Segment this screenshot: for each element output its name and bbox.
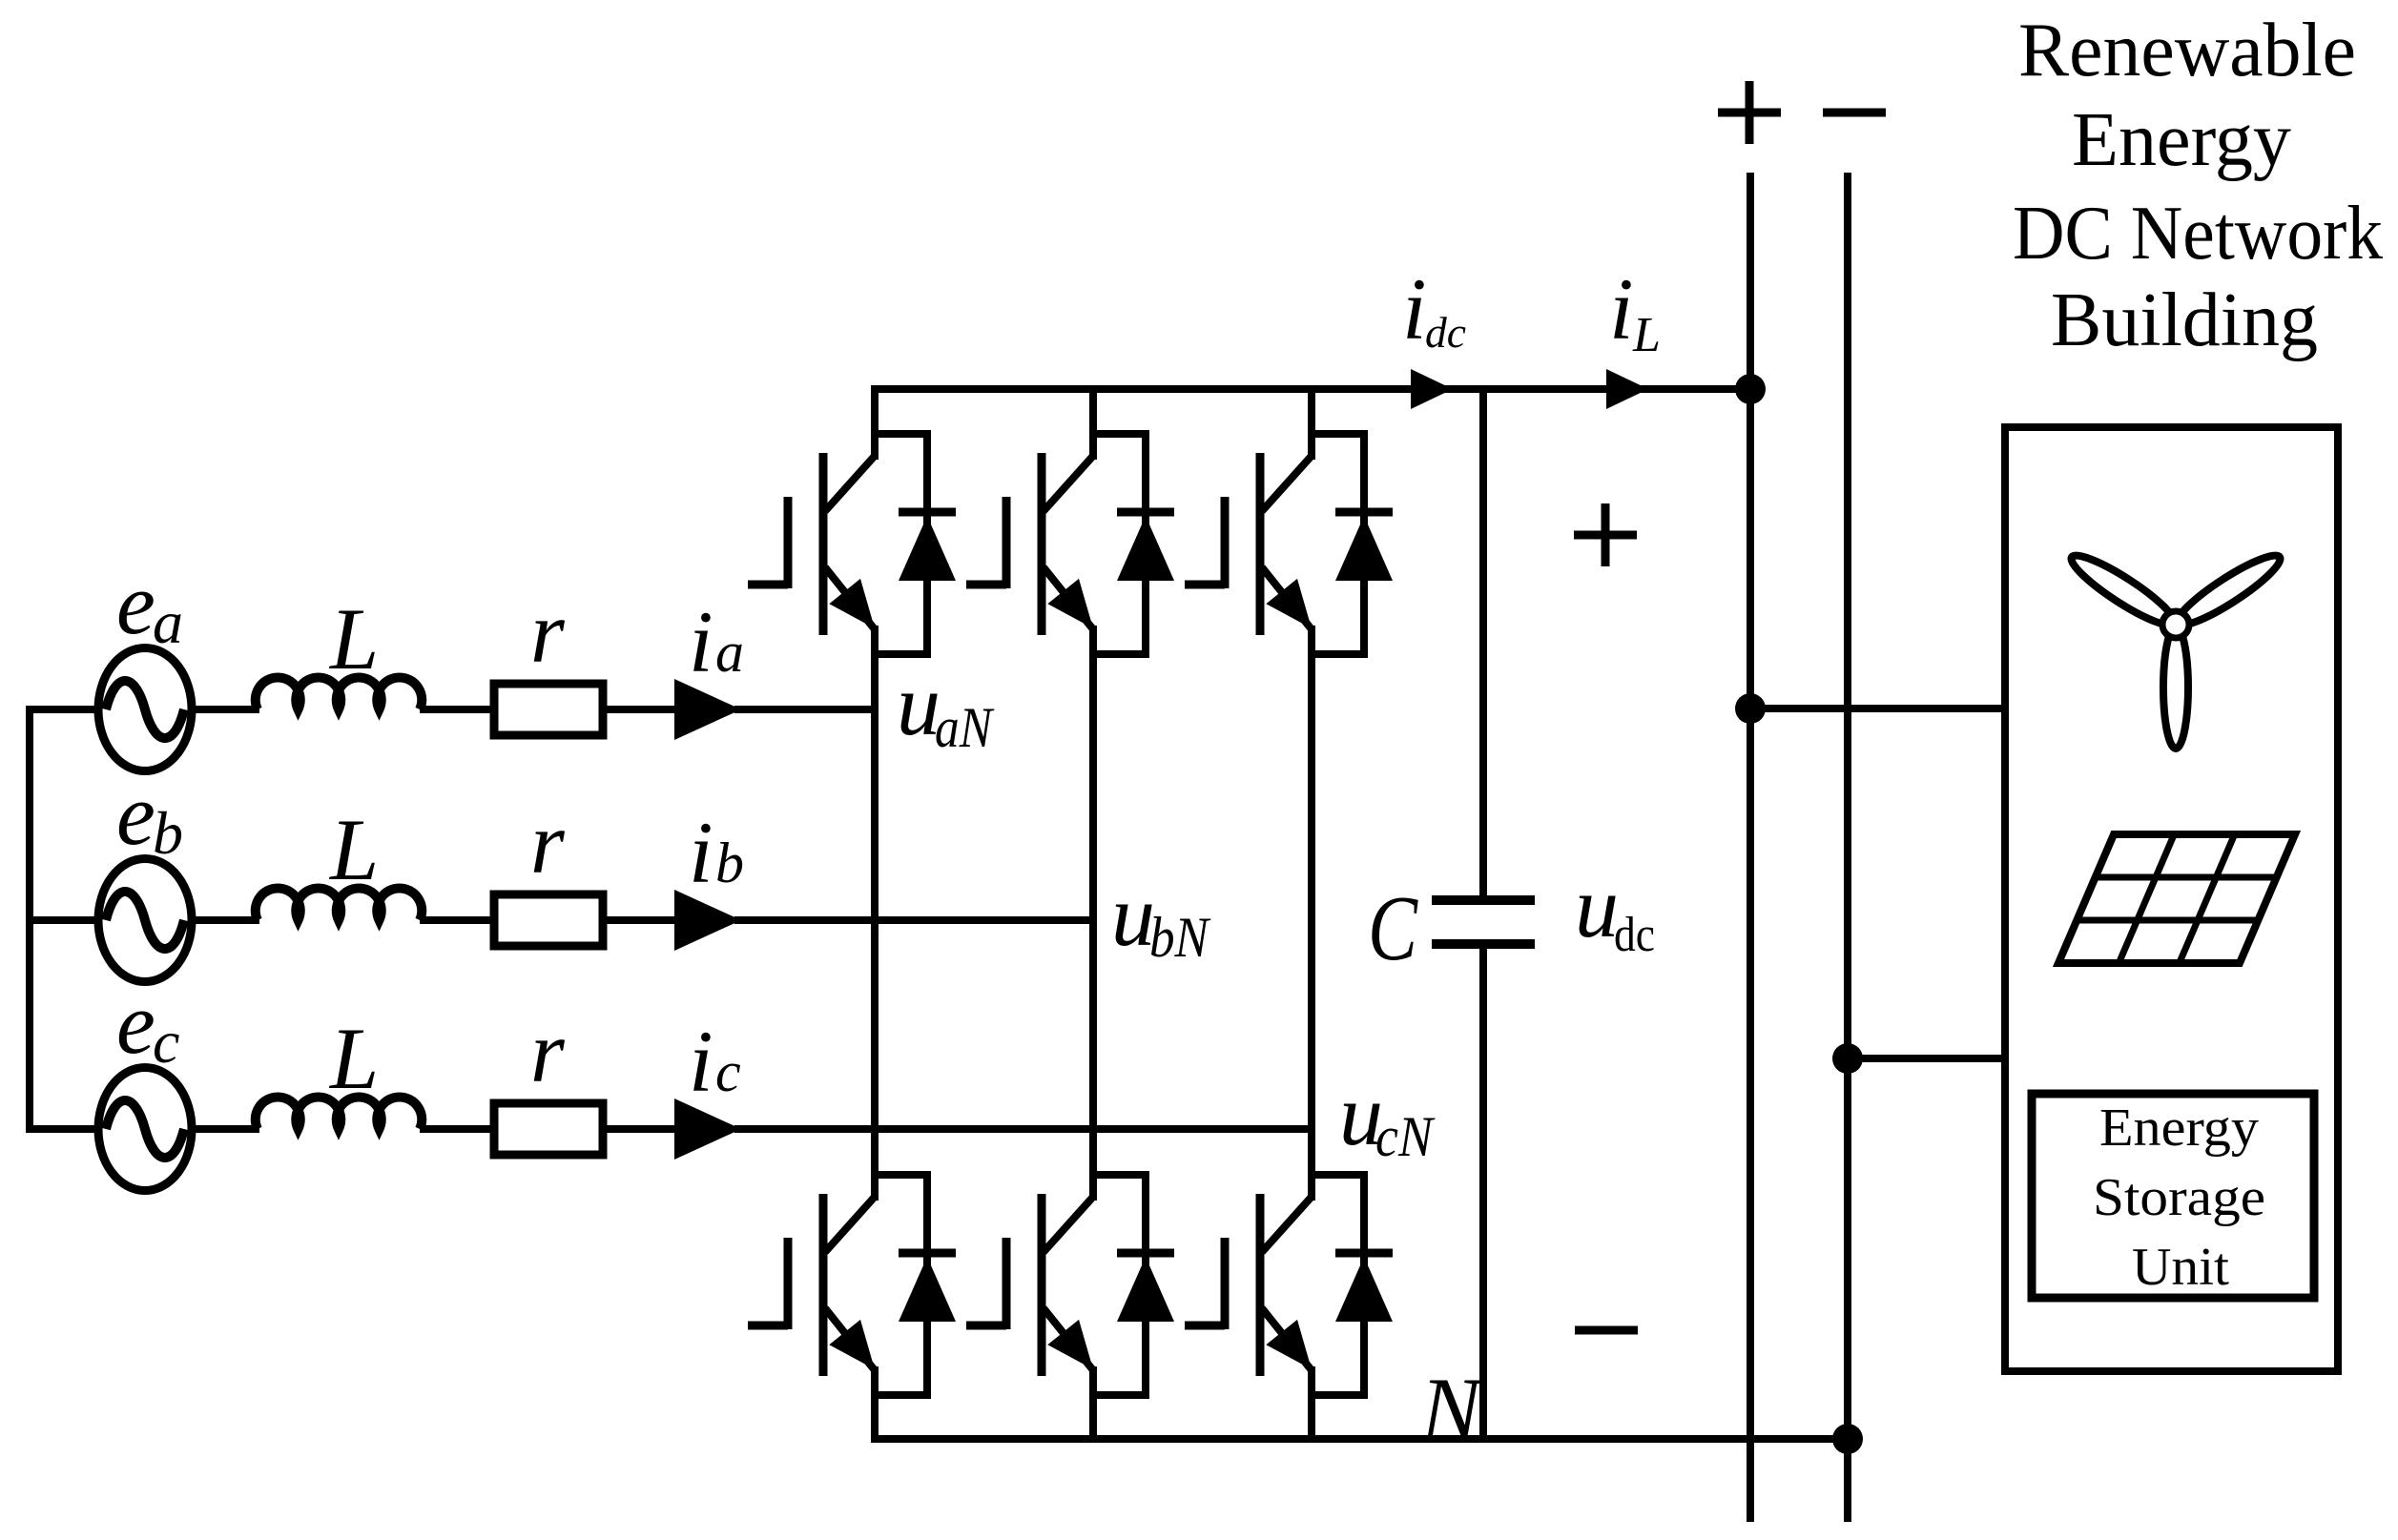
wire emitter-diode bottom jog Q5	[1093, 1391, 1146, 1399]
svg-text:Energy: Energy	[2072, 98, 2291, 182]
transistor Q1 (IGBT)	[748, 453, 875, 635]
transistor Q6 (IGBT)	[1185, 1194, 1312, 1376]
svg-text:dc: dc	[1614, 908, 1655, 962]
wire dc positive rail	[871, 385, 1750, 393]
diode D3 (anti-parallel)	[1335, 430, 1393, 658]
label i_a	[689, 593, 744, 690]
wire emitter-diode bottom jog Q2	[1093, 650, 1146, 658]
wire bridge leg 3 lower vertical	[1308, 1366, 1315, 1443]
wire capacitor branch lower	[1479, 944, 1487, 1439]
arrow current i_c	[674, 1099, 741, 1160]
wire left neutral bus vertical	[26, 706, 33, 1133]
label i_dc	[1402, 260, 1466, 358]
label e_c	[116, 975, 179, 1076]
label e_a	[116, 555, 183, 656]
arrow current i_a	[674, 679, 741, 740]
diode D1 (anti-parallel)	[899, 430, 956, 658]
label r phase b	[530, 794, 566, 892]
wire resistor to arrow phase b	[603, 916, 679, 924]
energy storage unit box	[2032, 1094, 2314, 1298]
svg-text:u: u	[1575, 858, 1619, 955]
label C	[1368, 877, 1418, 980]
transistor Q2 (IGBT)	[966, 453, 1093, 635]
label minus (bus)	[1823, 109, 1886, 117]
solar panel icon	[2058, 834, 2295, 963]
wire bridge leg 3 upper vertical	[1308, 385, 1315, 460]
label L phase b	[328, 801, 379, 898]
wire source to inductor phase c	[191, 1125, 259, 1133]
wire dc bus positive	[1747, 173, 1754, 1522]
wire source to inductor phase a	[191, 706, 259, 713]
svg-text:b: b	[715, 832, 744, 894]
capacitor C	[1432, 900, 1535, 944]
wire collector-diode top jog Q1	[875, 430, 927, 438]
wire bridge leg 2 middle vertical	[1089, 626, 1097, 1201]
voltage source e_a (AC)	[98, 648, 192, 771]
building box	[2005, 427, 2338, 1371]
label e_b	[116, 766, 183, 867]
wire collector-diode top jog Q2	[1093, 430, 1146, 438]
diode D5 (anti-parallel)	[1117, 1171, 1174, 1399]
wire collector-diode top jog Q4	[875, 1171, 927, 1179]
svg-text:r: r	[530, 1003, 566, 1100]
svg-text:e: e	[116, 975, 155, 1072]
wire collector-diode top jog Q6	[1312, 1171, 1364, 1179]
wire emitter-diode bottom jog Q1	[875, 650, 927, 658]
label L phase c	[328, 1010, 379, 1107]
wire arrow to bridge phase b	[734, 916, 1093, 924]
junction positive bus to building	[1735, 693, 1766, 724]
svg-text:i: i	[689, 593, 713, 690]
diode D2 (anti-parallel)	[1117, 430, 1174, 658]
svg-text:r: r	[530, 794, 566, 892]
label minus (dc link)	[1575, 1326, 1638, 1335]
svg-text:C: C	[1368, 877, 1418, 980]
diode D4 (anti-parallel)	[899, 1171, 956, 1399]
resistor r phase c	[494, 1103, 603, 1155]
arrow current i_L	[1606, 369, 1648, 409]
label Energy Storage Unit	[2093, 1099, 2265, 1297]
svg-text:i: i	[689, 1013, 713, 1110]
junction negative bus to storage	[1832, 1043, 1863, 1074]
svg-text:Unit: Unit	[2132, 1238, 2229, 1297]
wire source to inductor phase b	[191, 916, 259, 924]
wire positive bus to building	[1750, 705, 2005, 712]
svg-text:i: i	[689, 804, 713, 901]
svg-text:Building: Building	[2051, 278, 2318, 362]
arrow current i_dc	[1411, 369, 1453, 409]
label i_b	[689, 804, 744, 901]
node N	[1419, 1359, 1485, 1460]
wind turbine icon	[2065, 546, 2286, 749]
svg-text:DC Network: DC Network	[2013, 192, 2383, 276]
label plus (bus)	[1718, 81, 1781, 144]
svg-text:L: L	[328, 1010, 379, 1107]
transistor Q5 (IGBT)	[966, 1194, 1093, 1376]
wire bridge leg 1 upper vertical	[871, 385, 879, 460]
wire resistor to arrow phase a	[603, 706, 679, 713]
label i_L	[1609, 260, 1661, 362]
wire dc bus negative	[1844, 173, 1851, 1522]
wire inductor to resistor phase c	[420, 1125, 496, 1133]
label plus (dc link)	[1574, 503, 1637, 566]
svg-text:i: i	[1402, 260, 1427, 358]
svg-text:N: N	[1419, 1359, 1485, 1460]
wire bridge leg 1 middle vertical	[871, 626, 879, 1201]
wire source stub phase b	[26, 916, 99, 924]
voltage source e_b (AC)	[98, 859, 192, 982]
svg-text:bN: bN	[1149, 906, 1211, 969]
wire source stub phase c	[26, 1125, 99, 1133]
voltage source e_c (AC)	[98, 1068, 192, 1191]
resistor r phase b	[494, 894, 603, 946]
node u_bN	[1111, 867, 1211, 969]
arrow current i_b	[674, 890, 741, 951]
svg-text:L: L	[328, 801, 379, 898]
wire bridge leg 2 upper vertical	[1089, 385, 1097, 460]
wire negative bus to storage	[1848, 1055, 2005, 1062]
svg-text:e: e	[116, 555, 155, 652]
node u_aN	[897, 656, 995, 759]
wire resistor to arrow phase c	[603, 1125, 679, 1133]
wire emitter-diode bottom jog Q6	[1312, 1391, 1364, 1399]
svg-text:cN: cN	[1375, 1105, 1436, 1168]
wire emitter-diode bottom jog Q3	[1312, 650, 1364, 658]
svg-text:aN: aN	[935, 696, 995, 759]
diode D6 (anti-parallel)	[1335, 1171, 1393, 1399]
svg-text:r: r	[530, 584, 566, 681]
svg-text:a: a	[715, 621, 744, 684]
label i_c	[689, 1013, 741, 1110]
wire inductor to resistor phase b	[420, 916, 496, 924]
svg-text:i: i	[1609, 260, 1634, 358]
label r phase a	[530, 584, 566, 681]
wire collector-diode top jog Q5	[1093, 1171, 1146, 1179]
wire collector-diode top jog Q3	[1312, 430, 1364, 438]
junction iL to positive bus	[1735, 374, 1766, 404]
inductor L phase c	[256, 1097, 423, 1129]
wire bridge leg 1 lower vertical	[871, 1366, 879, 1443]
svg-text:Storage: Storage	[2093, 1168, 2265, 1227]
svg-text:L: L	[328, 590, 379, 688]
wire arrow to bridge phase a	[734, 706, 875, 713]
transistor Q4 (IGBT)	[748, 1194, 875, 1376]
junction negative rail to negative bus	[1832, 1424, 1863, 1454]
wire bridge leg 2 lower vertical	[1089, 1366, 1097, 1443]
inductor L phase b	[256, 888, 423, 920]
node u_cN	[1339, 1066, 1436, 1168]
wire emitter-diode bottom jog Q4	[875, 1391, 927, 1399]
wire inductor to resistor phase a	[420, 706, 496, 713]
svg-text:L: L	[1632, 308, 1661, 362]
inductor L phase a	[256, 677, 423, 709]
svg-text:Renewable: Renewable	[2018, 9, 2356, 92]
label u_dc	[1575, 858, 1655, 962]
svg-text:e: e	[116, 766, 155, 863]
label r phase c	[530, 1003, 566, 1100]
resistor r phase a	[494, 684, 603, 735]
wire dc negative rail (N)	[871, 1435, 1848, 1443]
wire arrow to bridge phase c	[734, 1125, 1312, 1133]
label Renewable Energy DC Network Building	[2013, 9, 2383, 362]
wire capacitor branch upper	[1479, 389, 1487, 900]
label L phase a	[328, 590, 379, 688]
svg-text:Energy: Energy	[2099, 1099, 2259, 1158]
wire source stub phase a	[26, 706, 99, 713]
transistor Q3 (IGBT)	[1185, 453, 1312, 635]
svg-text:dc: dc	[1425, 308, 1466, 357]
svg-text:c: c	[715, 1040, 741, 1103]
wire bridge leg 3 middle vertical	[1308, 626, 1315, 1201]
